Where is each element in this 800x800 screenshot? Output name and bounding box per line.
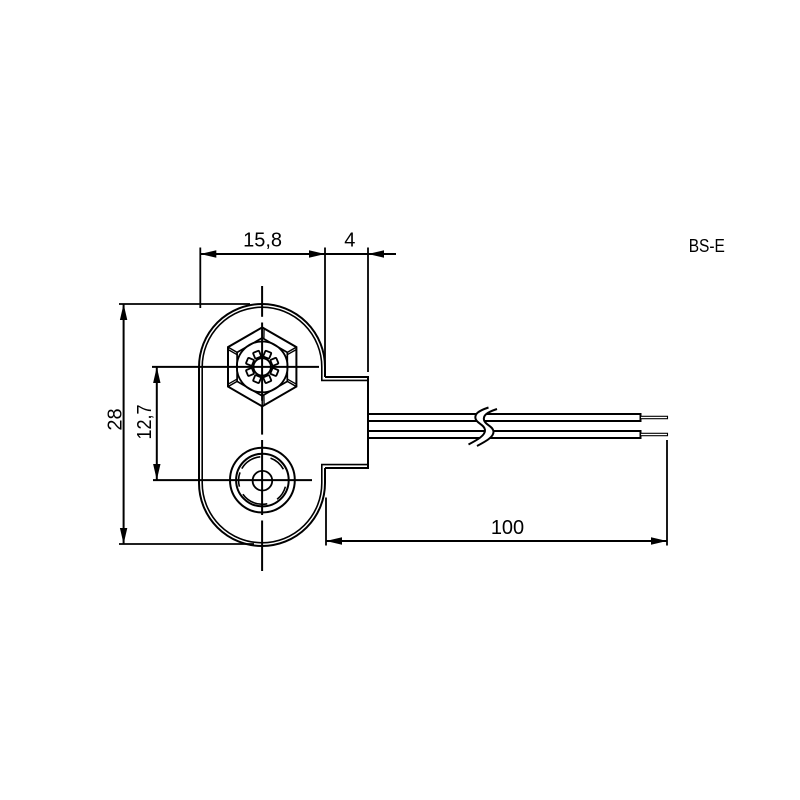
centerline horizontal through hex nut — [152, 366, 319, 368]
star washer teeth — [246, 351, 279, 384]
wire break S-curve right — [477, 409, 497, 446]
hex nut connector outer hex — [228, 327, 296, 406]
hex chamfer edge doubles — [228, 329, 296, 406]
body outer contour — [199, 304, 325, 546]
dim line 12,7 — [156, 367, 158, 480]
arrow 100 right — [651, 537, 667, 544]
arrow left (points left) — [200, 250, 216, 257]
arrow mid (points right) — [309, 250, 325, 257]
hex nut inner hex — [237, 338, 287, 396]
wire break S-curve left — [469, 408, 489, 445]
wire 1 insulation — [368, 414, 641, 421]
arrow 28 bottom — [120, 528, 127, 544]
tab outline — [325, 377, 368, 468]
svg-text:15,8: 15,8 — [243, 230, 282, 252]
dim 15,8 / 4 extension line left — [199, 248, 201, 309]
wire 2 conductor — [641, 433, 668, 435]
wire 1 conductor — [641, 416, 668, 418]
snap center hole — [253, 471, 273, 491]
svg-text:4: 4 — [344, 230, 355, 252]
snap connector outer circle — [230, 448, 295, 513]
dim 28 extension bottom — [119, 543, 254, 545]
dim line 100 — [326, 540, 667, 542]
svg-text:100: 100 — [491, 517, 524, 539]
dim 100 extension right — [666, 440, 668, 546]
dim 28 extension top — [119, 303, 250, 305]
dim line 28 — [123, 304, 125, 544]
centerline vertical (body axis) — [261, 286, 263, 571]
tab edge over wires — [367, 377, 369, 468]
svg-text:BS-E: BS-E — [689, 235, 725, 256]
centerline horizontal through snap — [153, 479, 312, 481]
extension line right (tab edge) — [367, 248, 369, 373]
dim line top — [200, 253, 396, 255]
snap connector mid circle — [236, 454, 289, 507]
dim 100 extension left — [325, 498, 327, 546]
hex chamfer edges — [228, 327, 296, 406]
svg-text:28: 28 — [105, 408, 127, 430]
nut face circle — [237, 342, 288, 393]
arrow 28 top — [120, 304, 127, 320]
arrow 12,7 bottom — [153, 464, 160, 480]
washer bore circle — [254, 358, 271, 375]
wire break mask — [469, 408, 498, 447]
extension line mid (body right edge) — [324, 248, 326, 378]
arrow right (points left) — [368, 250, 384, 257]
body inner contour — [202, 307, 368, 543]
svg-text:12,7: 12,7 — [134, 405, 156, 440]
arrow 12,7 top — [153, 367, 160, 383]
wire 2 insulation — [368, 431, 641, 438]
snap highlight arcs — [239, 457, 286, 505]
arrow 100 left — [326, 537, 342, 544]
